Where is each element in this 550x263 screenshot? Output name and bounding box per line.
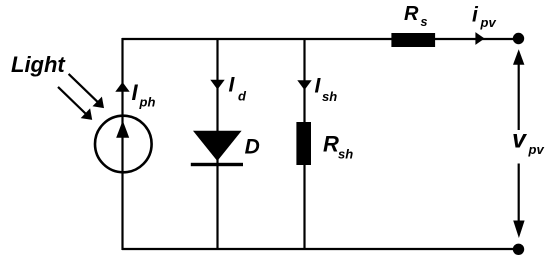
arrowhead current Ish [297, 80, 311, 90]
svg-text:pv: pv [528, 142, 545, 157]
wire bottom rail [122, 248, 519, 250]
wire left branch through current source [121, 38, 123, 250]
wire shunt branch [303, 38, 305, 250]
resistor Rsh body [296, 122, 311, 165]
wire top rail [122, 38, 519, 40]
wire diode branch [216, 38, 218, 250]
vpv upper arrow line [518, 58, 520, 130]
svg-text:sh: sh [322, 89, 337, 104]
svg-text:I: I [315, 75, 322, 98]
terminal node top [513, 33, 524, 44]
svg-text:v: v [512, 126, 528, 154]
svg-text:sh: sh [338, 147, 353, 162]
diode D1 triangle [193, 131, 242, 161]
vpv lower arrow line [518, 164, 520, 229]
svg-text:s: s [421, 15, 428, 29]
resistor Rs body [391, 33, 435, 47]
svg-text:R: R [323, 132, 339, 157]
svg-text:I: I [229, 73, 236, 96]
diode D1 cathode bar [191, 163, 243, 166]
arrowhead current Iph [115, 82, 129, 92]
terminal node bottom [513, 244, 524, 255]
current source U1 circle [95, 116, 152, 173]
light arrow 1 [69, 74, 98, 102]
light arrow 2 [58, 87, 86, 114]
svg-text:d: d [238, 89, 247, 104]
svg-text:ph: ph [139, 94, 156, 109]
arrowhead inside current source [116, 121, 129, 138]
vpv lower arrowhead [513, 221, 524, 239]
svg-text:I: I [132, 80, 139, 105]
arrowhead current Id [210, 80, 224, 90]
arrowhead current ipv [475, 32, 484, 45]
svg-text:pv: pv [480, 15, 497, 30]
svg-text:i: i [472, 4, 479, 27]
svg-text:Light: Light [11, 52, 66, 77]
vpv upper arrowhead [513, 49, 524, 65]
svg-text:D: D [245, 136, 260, 159]
svg-text:R: R [404, 3, 419, 25]
